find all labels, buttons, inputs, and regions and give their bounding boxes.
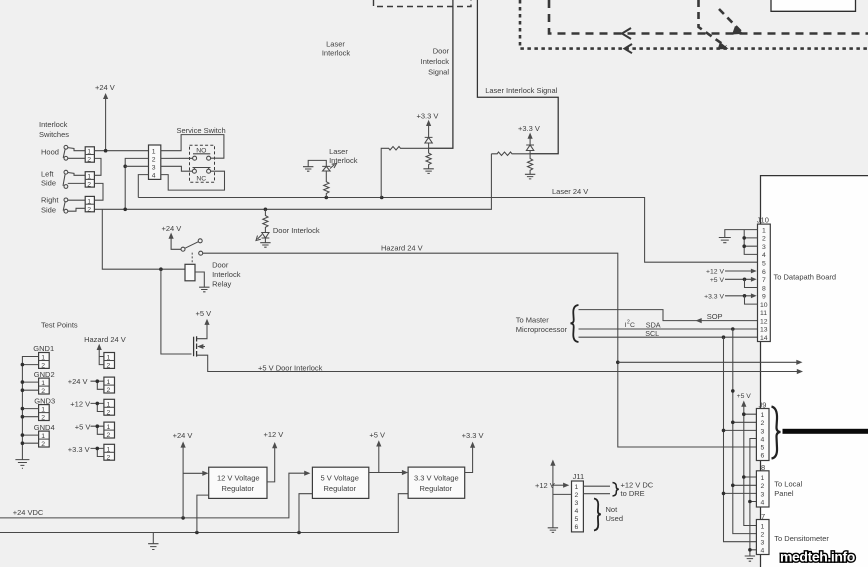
svg-text:Door: Door <box>212 260 229 269</box>
svg-text:2: 2 <box>107 387 111 394</box>
svg-text:Interlock: Interlock <box>421 57 450 66</box>
svg-text:+5 V: +5 V <box>75 423 91 432</box>
svg-text:Test Points: Test Points <box>41 321 78 330</box>
svg-text:medteh.info: medteh.info <box>780 549 855 565</box>
svg-text:1: 1 <box>761 412 765 419</box>
svg-text:Side: Side <box>41 206 56 215</box>
svg-text:1: 1 <box>41 380 45 387</box>
svg-text:5: 5 <box>575 516 579 523</box>
svg-text:1: 1 <box>107 446 111 453</box>
svg-text:Not: Not <box>606 505 619 514</box>
svg-text:4: 4 <box>761 548 765 555</box>
svg-text:+5 V: +5 V <box>737 393 752 400</box>
svg-text:+12 V: +12 V <box>706 269 724 276</box>
svg-text:Laser Interlock Signal: Laser Interlock Signal <box>485 86 557 95</box>
svg-text:1: 1 <box>87 198 91 205</box>
svg-text:1: 1 <box>87 149 91 156</box>
svg-text:3: 3 <box>575 500 579 507</box>
svg-text:Microprocessor: Microprocessor <box>516 325 568 334</box>
svg-text:NC: NC <box>196 176 206 183</box>
svg-text:3: 3 <box>761 428 765 435</box>
svg-text:Interlock: Interlock <box>212 270 241 279</box>
svg-text:1: 1 <box>762 227 766 234</box>
svg-text:1: 1 <box>41 433 45 440</box>
svg-text:+3.3 V: +3.3 V <box>417 111 439 120</box>
svg-text:Hazard 24 V: Hazard 24 V <box>84 335 126 344</box>
svg-text:2: 2 <box>761 532 765 539</box>
svg-text:Used: Used <box>606 514 624 523</box>
svg-text:SCL: SCL <box>645 329 659 338</box>
svg-text:8: 8 <box>762 285 766 292</box>
svg-text:Interlock: Interlock <box>322 49 351 58</box>
svg-text:+12 V DC: +12 V DC <box>621 480 654 489</box>
svg-text:1: 1 <box>107 401 111 408</box>
svg-text:Laser: Laser <box>326 40 345 49</box>
svg-text:1: 1 <box>107 424 111 431</box>
svg-text:Left: Left <box>41 170 54 179</box>
svg-text:2: 2 <box>761 483 765 490</box>
svg-text:12: 12 <box>760 318 768 325</box>
svg-text:6: 6 <box>575 524 579 531</box>
svg-text:4: 4 <box>761 436 765 443</box>
svg-text:To Local: To Local <box>774 479 802 488</box>
svg-text:2: 2 <box>41 388 45 395</box>
svg-text:2: 2 <box>761 420 765 427</box>
svg-text:4: 4 <box>762 252 766 259</box>
svg-text:2: 2 <box>41 363 45 370</box>
svg-text:Interlock: Interlock <box>39 120 68 129</box>
svg-text:1: 1 <box>87 174 91 181</box>
svg-text:2: 2 <box>107 363 111 370</box>
svg-text:1: 1 <box>761 475 765 482</box>
svg-text:7: 7 <box>762 277 766 284</box>
svg-text:1: 1 <box>107 379 111 386</box>
svg-text:3: 3 <box>761 540 765 547</box>
svg-text:2: 2 <box>575 492 579 499</box>
svg-text:Hazard 24 V: Hazard 24 V <box>381 244 423 253</box>
svg-text:Interlock: Interlock <box>329 156 358 165</box>
svg-text:2: 2 <box>107 409 111 416</box>
svg-text:3: 3 <box>761 491 765 498</box>
svg-text:2: 2 <box>152 156 156 163</box>
svg-text:2: 2 <box>87 182 91 189</box>
svg-text:+3.3 V: +3.3 V <box>462 431 484 440</box>
svg-text:1: 1 <box>107 355 111 362</box>
svg-text:Laser 24 V: Laser 24 V <box>552 187 588 196</box>
svg-text:4: 4 <box>152 172 156 179</box>
svg-text:Regulator: Regulator <box>222 484 255 493</box>
svg-text:Hood: Hood <box>41 148 59 157</box>
svg-text:4: 4 <box>761 499 765 506</box>
svg-text:3.3 V Voltage: 3.3 V Voltage <box>414 474 459 483</box>
svg-text:2: 2 <box>107 432 111 439</box>
svg-text:4: 4 <box>575 508 579 515</box>
svg-text:+24 V: +24 V <box>68 377 88 386</box>
svg-text:11: 11 <box>760 310 767 317</box>
svg-text:10: 10 <box>760 302 768 309</box>
svg-text:2: 2 <box>41 441 45 448</box>
svg-text:Right: Right <box>41 196 59 205</box>
svg-text:5 V Voltage: 5 V Voltage <box>321 474 359 483</box>
svg-text:J11: J11 <box>573 472 585 481</box>
svg-text:J10: J10 <box>757 216 769 225</box>
svg-text:Service Switch: Service Switch <box>177 126 226 135</box>
svg-text:3: 3 <box>152 164 156 171</box>
svg-text:C: C <box>630 322 635 329</box>
svg-text:+12 V: +12 V <box>264 430 284 439</box>
svg-text:+24 V: +24 V <box>173 431 193 440</box>
svg-text:14: 14 <box>760 335 768 342</box>
svg-text:1: 1 <box>41 355 45 362</box>
svg-text:Laser: Laser <box>329 147 348 156</box>
svg-text:1: 1 <box>761 523 765 530</box>
svg-text:To Datapath Board: To Datapath Board <box>774 273 837 282</box>
svg-text:6: 6 <box>761 453 765 460</box>
svg-text:5: 5 <box>762 261 766 268</box>
svg-text:3: 3 <box>762 244 766 251</box>
svg-text:+5 V: +5 V <box>196 309 212 318</box>
svg-text:Switches: Switches <box>39 130 69 139</box>
svg-text:+24 V: +24 V <box>95 83 115 92</box>
svg-text:2: 2 <box>762 236 766 243</box>
svg-text:5: 5 <box>761 445 765 452</box>
svg-text:6: 6 <box>762 269 766 276</box>
svg-text:+3.3 V: +3.3 V <box>518 124 540 133</box>
svg-text:2: 2 <box>107 454 111 461</box>
svg-text:2: 2 <box>87 157 91 164</box>
svg-text:Door Interlock: Door Interlock <box>273 226 320 235</box>
svg-text:Signal: Signal <box>428 68 449 77</box>
svg-text:+12 V: +12 V <box>70 400 90 409</box>
svg-text:13: 13 <box>760 327 768 334</box>
svg-text:+24 VDC: +24 VDC <box>13 508 44 517</box>
svg-text:SOP: SOP <box>707 312 723 321</box>
svg-text:+5 V: +5 V <box>369 430 385 439</box>
svg-text:+3.3 V: +3.3 V <box>704 293 724 300</box>
svg-text:+3.3 V: +3.3 V <box>68 445 90 454</box>
svg-text:Regulator: Regulator <box>324 484 357 493</box>
svg-text:1: 1 <box>152 149 156 156</box>
svg-text:Side: Side <box>41 179 56 188</box>
svg-text:Regulator: Regulator <box>420 484 453 493</box>
svg-text:Relay: Relay <box>212 280 231 289</box>
svg-text:1: 1 <box>575 484 579 491</box>
svg-text:To Densitometer: To Densitometer <box>774 534 829 543</box>
svg-text:to DRE: to DRE <box>621 489 645 498</box>
svg-text:2: 2 <box>87 206 91 213</box>
svg-text:GND1: GND1 <box>33 344 54 353</box>
svg-text:12 V Voltage: 12 V Voltage <box>217 474 260 483</box>
svg-text:Panel: Panel <box>774 489 794 498</box>
svg-text:To Master: To Master <box>516 315 549 324</box>
svg-text:9: 9 <box>762 294 766 301</box>
svg-text:2: 2 <box>41 415 45 422</box>
svg-text:Door: Door <box>433 47 450 56</box>
svg-text:1: 1 <box>41 407 45 414</box>
svg-text:+5 V Door Interlock: +5 V Door Interlock <box>258 363 323 372</box>
svg-text:+5 V: +5 V <box>710 277 725 284</box>
svg-text:+24 V: +24 V <box>162 224 182 233</box>
